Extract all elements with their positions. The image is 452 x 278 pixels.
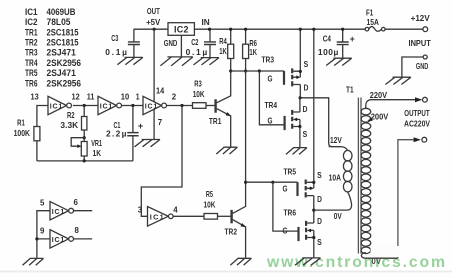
ground IC2 <box>160 57 193 66</box>
svg-text:TR4: TR4 <box>25 58 38 68</box>
node C1 top <box>131 104 134 107</box>
svg-text:220V: 220V <box>370 90 388 100</box>
transistor Q1 : TR1 2SC1815 <box>214 99 216 112</box>
svg-text:3.3K: 3.3K <box>60 120 78 130</box>
svg-text:D: D <box>317 194 322 204</box>
svg-text:0V: 0V <box>334 211 342 221</box>
svg-text:TR6: TR6 <box>25 78 38 88</box>
wire oscillator bottom rail <box>37 160 133 162</box>
wire +12V top rail <box>134 28 423 30</box>
svg-text:IN: IN <box>202 17 210 27</box>
wire gate A out <box>73 105 98 107</box>
node TR5/TR6 drains <box>312 209 315 212</box>
node R6 bottom <box>244 69 247 72</box>
node R2 top <box>83 104 86 107</box>
svg-text:AC220V: AC220V <box>404 119 431 128</box>
inductor T1 primary winding <box>329 147 348 151</box>
wire gate E out stub <box>74 210 93 212</box>
node R2/VR1 <box>83 136 86 139</box>
node secondary 0V <box>371 246 400 257</box>
resistor R2 3.3K <box>83 106 85 138</box>
capacitor C2 0.1u <box>209 29 211 57</box>
svg-text:S: S <box>304 59 309 69</box>
wire pin7 to ground <box>153 109 155 139</box>
svg-text:78L05: 78L05 <box>47 17 71 27</box>
wire drains to transformer 0V tap <box>314 192 352 210</box>
svg-text:1K: 1K <box>249 47 257 57</box>
wire gate C out to gate D input <box>141 106 182 217</box>
svg-text:R2: R2 <box>67 110 75 120</box>
svg-text:2SJ471: 2SJ471 <box>47 48 76 58</box>
svg-text:TR1: TR1 <box>25 27 38 37</box>
ground TR4 source <box>286 148 307 155</box>
node R6 top <box>244 28 247 31</box>
svg-text:TR3: TR3 <box>262 55 275 65</box>
capacitor C1 2.2u <box>132 106 134 161</box>
svg-text:8: 8 <box>75 225 80 235</box>
svg-text:0V: 0V <box>372 257 382 266</box>
ground C4 <box>326 58 352 65</box>
svg-text:2: 2 <box>172 92 177 102</box>
wire IC2 GND lead <box>180 35 182 57</box>
transistor Q4 : TR4 2SK2956 N-MOSFET <box>284 116 286 130</box>
svg-text:S: S <box>317 170 322 180</box>
node R4 bottom / TR1 collector <box>229 69 232 72</box>
svg-text:1K: 1K <box>219 46 227 56</box>
resistor R5 10K <box>204 214 218 220</box>
svg-text:G: G <box>268 115 273 125</box>
svg-text:3: 3 <box>138 204 143 214</box>
svg-text:T1: T1 <box>346 85 354 95</box>
svg-text:IC1: IC1 <box>52 209 65 216</box>
svg-text:OUTPUT: OUTPUT <box>404 109 429 118</box>
ground C2 <box>194 58 220 65</box>
svg-text:0.1µ: 0.1µ <box>105 47 127 57</box>
svg-text:+: + <box>350 34 355 45</box>
transformer T1 core <box>358 98 361 254</box>
svg-text:7: 7 <box>158 117 163 127</box>
wire gate F out stub <box>74 238 93 240</box>
svg-text:VR1: VR1 <box>91 138 102 148</box>
op-amp U1 : IC1 gate A pins 13-12 <box>48 96 67 114</box>
svg-text:G: G <box>283 184 288 194</box>
svg-text:4: 4 <box>173 204 178 214</box>
svg-text:TR2: TR2 <box>25 38 38 48</box>
transistor Q3 : TR3 2SJ471 P-MOSFET <box>283 71 285 85</box>
node output terminal 2 <box>414 137 421 142</box>
op-amp U1 : IC1 gate D pins 3-4 <box>148 207 169 227</box>
svg-text:0.1µ: 0.1µ <box>186 47 208 57</box>
svg-text:R3: R3 <box>194 79 202 89</box>
node TR6 source/body <box>312 236 315 239</box>
wire R3 to TR1 base <box>206 105 215 107</box>
node VR1 bottom <box>83 159 86 162</box>
transistor Q6 : TR6 2SK2956 N-MOSFET <box>297 227 299 241</box>
svg-text:TR4: TR4 <box>265 100 278 110</box>
wire R5 to TR2 base <box>218 215 231 217</box>
svg-text:IC2: IC2 <box>25 17 38 27</box>
inductor T1 secondary winding <box>366 100 416 109</box>
svg-text:+: + <box>138 121 144 132</box>
wire VR1 wiper loop <box>71 138 84 147</box>
svg-text:OUT: OUT <box>147 6 161 16</box>
svg-text:INPUT: INPUT <box>409 38 432 48</box>
svg-text:S: S <box>317 237 322 247</box>
node TR3/TR4 drains <box>299 96 302 99</box>
op-amp U1 : IC1 gate E pins 5-6 <box>50 202 69 220</box>
node TR3 source rail <box>299 28 302 31</box>
svg-text:TR5: TR5 <box>284 166 297 176</box>
wire TR4 gate <box>259 71 284 125</box>
op-amp U1 : IC1 gate F pins 9-8 <box>50 230 69 248</box>
svg-text:IC1: IC1 <box>50 104 63 111</box>
ground TR2 emitter <box>230 258 251 265</box>
svg-text:9: 9 <box>40 226 45 236</box>
svg-text:13: 13 <box>31 92 40 102</box>
svg-text:200V: 200V <box>371 112 389 122</box>
svg-text:R4: R4 <box>219 36 227 46</box>
svg-text:IC1: IC1 <box>25 7 38 17</box>
wire gate D out <box>173 215 204 217</box>
capacitor C4 100u <box>342 29 344 58</box>
svg-text:10A: 10A <box>329 173 341 183</box>
svg-text:+12V: +12V <box>411 13 430 23</box>
wire TR5 source to +12V <box>313 29 315 182</box>
svg-text:www.cntronics.com: www.cntronics.com <box>266 254 445 271</box>
op-amp U1 : IC2 78L05 regulator box <box>168 23 194 36</box>
ground TR6 source <box>295 258 321 265</box>
wire secondary bottom to output <box>398 140 414 259</box>
svg-text:GND: GND <box>416 61 428 71</box>
svg-text:2SK2956: 2SK2956 <box>47 78 82 88</box>
svg-text:R5: R5 <box>206 189 213 199</box>
scan artifact line <box>0 271 452 273</box>
node TR5 source/body <box>312 181 315 184</box>
svg-text:10K: 10K <box>204 200 216 210</box>
wire TR1 collector to TR3/TR4 gates <box>231 70 260 72</box>
wire TR6 gate <box>273 182 299 231</box>
svg-text:IC1: IC1 <box>145 104 158 111</box>
svg-text:10K: 10K <box>193 89 205 99</box>
svg-text:D: D <box>304 82 309 92</box>
wire drains to transformer 12V tap <box>300 98 341 147</box>
svg-text:G: G <box>283 225 288 235</box>
svg-text:100K: 100K <box>14 128 30 138</box>
svg-text:TR1: TR1 <box>209 116 222 126</box>
svg-text:C3: C3 <box>111 33 118 43</box>
capacitor C3 0.1u <box>133 29 135 57</box>
svg-text:1K: 1K <box>93 148 102 158</box>
node TR3/TR4 gate <box>258 69 261 72</box>
node TR2 collector / TR5 TR6 gates <box>244 181 247 184</box>
svg-text:12V: 12V <box>330 135 342 145</box>
svg-text:10: 10 <box>121 92 130 102</box>
fuse F1 15A <box>365 27 369 31</box>
node gate C output <box>180 104 183 107</box>
op-amp U1 : IC1 gate C pins 1-2 <box>143 96 162 114</box>
transistor Q5 : TR5 2SJ471 P-MOSFET <box>296 182 298 196</box>
wire gate E/F inputs to ground <box>37 211 50 259</box>
wire TR3 source to +12V <box>299 29 301 71</box>
svg-text:C4: C4 <box>323 34 331 44</box>
ground gate E/F inputs <box>23 258 44 265</box>
svg-text:IC2: IC2 <box>174 25 189 35</box>
wire TR3 gate <box>259 70 284 72</box>
svg-text:11: 11 <box>87 92 95 102</box>
svg-text:D: D <box>317 216 322 226</box>
node TR3 source/body <box>299 70 302 73</box>
transistor Q2 : TR2 2SC1815 <box>230 210 232 223</box>
wire TR5 gate <box>273 181 298 183</box>
svg-text:G: G <box>268 73 273 83</box>
svg-text:14: 14 <box>156 85 165 95</box>
svg-text:1: 1 <box>136 92 140 102</box>
wire pin13 input <box>37 106 48 127</box>
svg-text:6: 6 <box>74 197 79 207</box>
svg-text:C2: C2 <box>191 37 199 47</box>
resistor R6 1K <box>245 29 247 71</box>
node TR4 source/body <box>298 125 301 128</box>
svg-text:4069UB: 4069UB <box>47 7 76 17</box>
wire pin14 to +5V <box>153 29 155 102</box>
resistor R3 10K <box>193 103 207 109</box>
svg-text:S: S <box>303 129 308 139</box>
node R4 top <box>229 28 232 31</box>
node output terminal 1 <box>415 97 422 102</box>
svg-text:IC1: IC1 <box>52 237 65 244</box>
svg-text:TR2: TR2 <box>225 227 238 237</box>
svg-text:TR3: TR3 <box>25 48 38 58</box>
node +12V INPUT terminal <box>423 27 428 32</box>
op-amp U1 : IC1 gate B pins 11-10 <box>98 96 117 114</box>
ground C3 <box>117 57 142 64</box>
svg-text:100µ: 100µ <box>318 47 339 57</box>
svg-text:2.2µ: 2.2µ <box>106 129 127 139</box>
svg-text:2SK2956: 2SK2956 <box>47 58 82 68</box>
parts list <box>25 7 81 89</box>
svg-text:5: 5 <box>40 198 45 208</box>
svg-text:TR5: TR5 <box>25 68 38 78</box>
potentiometer VR1 1K <box>83 138 85 161</box>
wire TR5/TR6 gate node <box>246 181 273 183</box>
ground TR1 emitter <box>216 147 237 154</box>
svg-text:2SC1815: 2SC1815 <box>47 38 79 48</box>
svg-text:+5V: +5V <box>146 17 161 27</box>
node C4 top <box>341 28 344 31</box>
svg-text:15A: 15A <box>367 17 379 27</box>
svg-text:TR6: TR6 <box>284 207 297 217</box>
svg-text:R1: R1 <box>17 117 25 127</box>
resistor R4 1K <box>230 29 232 71</box>
svg-text:D: D <box>303 104 308 114</box>
resistor R1 100K <box>34 127 40 141</box>
node GND terminal <box>423 55 427 59</box>
node TR5 source rail <box>312 28 315 31</box>
svg-text:2SJ471: 2SJ471 <box>47 68 76 78</box>
wire gate B out <box>121 105 143 107</box>
ground input GND <box>385 77 411 84</box>
svg-text:12: 12 <box>72 92 81 102</box>
ground IC1 pin7 <box>135 140 161 147</box>
svg-text:IC1: IC1 <box>100 104 113 111</box>
wire gate C out <box>166 105 192 107</box>
svg-text:GND: GND <box>164 38 178 48</box>
node gate F input <box>35 237 38 240</box>
svg-text:2SC1815: 2SC1815 <box>47 27 79 37</box>
wire GND terminal <box>402 57 423 77</box>
